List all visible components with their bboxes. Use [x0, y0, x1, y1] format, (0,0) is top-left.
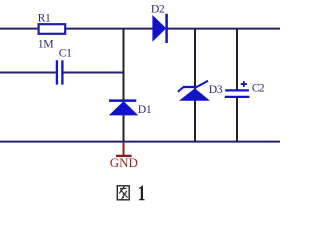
svg-text:D1: D1 — [138, 103, 152, 116]
label GND — [110, 155, 138, 170]
wire C1 branch left segment — [0, 72, 56, 74]
wire bottom rail — [0, 141, 280, 143]
diode D1 — [109, 101, 139, 116]
wire vertical branch through D1 (node A) — [123, 29, 125, 142]
value label 1M — [38, 38, 54, 51]
capacitor C1 — [57, 60, 63, 84]
resistor R1 — [39, 24, 66, 34]
label D1 — [138, 103, 152, 116]
label D3 — [209, 83, 223, 96]
svg-text:D2: D2 — [151, 2, 165, 15]
wire vertical branch through D3 — [194, 29, 196, 142]
svg-text:R1: R1 — [38, 12, 51, 25]
ground — [116, 142, 132, 156]
svg-text:1M: 1M — [38, 38, 54, 51]
label C2 — [252, 82, 265, 95]
svg-text:GND: GND — [110, 155, 138, 170]
diode D2 — [152, 14, 166, 43]
caption figure 1 — [117, 186, 144, 201]
wire C1 branch right segment to node A — [63, 72, 124, 74]
wire vertical branch upper lead of C2 — [236, 29, 238, 90]
wire vertical branch lower lead of C2 — [236, 98, 238, 142]
wire top rail (input to D2 anode and out to right) — [0, 28, 280, 30]
label D2 — [151, 2, 165, 15]
svg-text:D3: D3 — [209, 83, 223, 96]
svg-text:C2: C2 — [252, 82, 265, 95]
C2 polarity plus sign — [241, 81, 247, 87]
capacitor C2 polarized — [225, 90, 250, 97]
label C1 — [59, 46, 72, 59]
svg-text:C1: C1 — [59, 46, 72, 59]
zener diode D3 — [178, 81, 210, 101]
label R1 — [38, 12, 51, 25]
